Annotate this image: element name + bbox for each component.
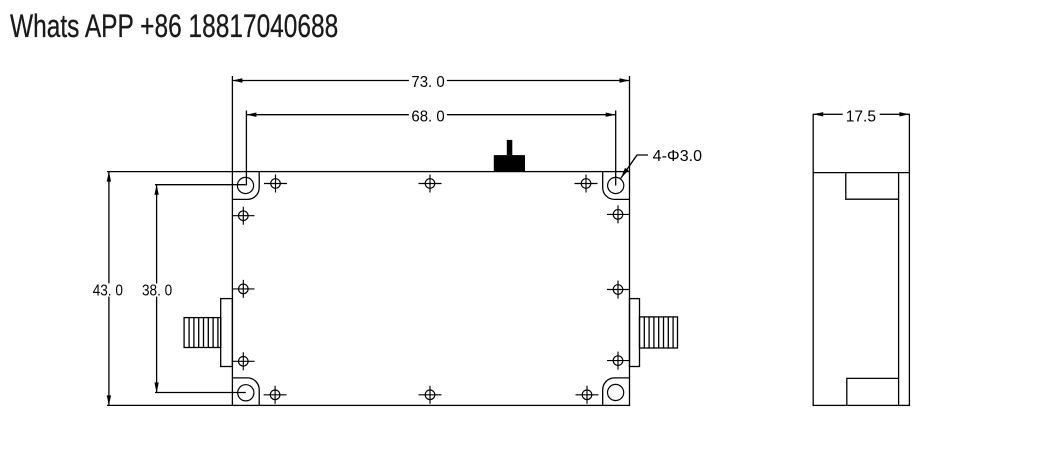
dim 43.0 arrows [107,172,111,406]
screw hole right col 1 [607,205,630,223]
screw hole bottom right [576,386,599,404]
SMA connector right barrel [640,317,678,348]
screw hole right col 3 [607,352,630,370]
screw hole left col 1 [232,207,254,225]
text 38.0 [141,283,175,300]
SMA connector right flange [630,299,640,367]
corner lug bottom-left [232,378,259,406]
screw hole top row [264,175,287,193]
svg-text:43. 0: 43. 0 [93,283,123,300]
dim 17.5 arrows [813,112,909,116]
screw hole top middle [419,175,442,193]
svg-text:17.5: 17.5 [846,108,876,125]
svg-text:38. 0: 38. 0 [142,283,172,300]
side view inner wall [898,173,900,406]
SMA connector left threads [189,318,218,348]
text 68.0 [409,108,447,125]
corner hole top-right [608,177,624,193]
dim 68.0 line [246,111,615,186]
side view bottom notch [847,378,899,405]
feedthrough pin top (filled) [494,140,525,172]
screw hole top right [575,175,598,193]
side view top notch [846,173,899,200]
dimension texts with white backing [91,74,880,300]
text 4-phi3.0 [653,148,702,165]
leader 4-phi3.0 [621,155,648,178]
dim 73.0 arrows [232,78,629,82]
dim 43.0 line [107,172,232,406]
dim 38.0 line [155,185,246,393]
corner lug top-right [603,172,630,200]
side view outline [813,114,909,405]
dim 38.0 arrows [154,185,158,393]
SMA connector left barrel [184,318,221,348]
SMA connector right threads [644,317,673,348]
header contact text [10,8,338,45]
corner hole bottom-right [608,384,624,400]
side view lid line [813,172,909,174]
corner lug bottom-right [603,378,630,406]
screw hole bottom middle [419,386,442,404]
text 17.5 [843,108,880,125]
screw hole left col 3 [232,352,254,370]
dim 73.0 line [232,76,629,172]
screw hole bottom left [264,386,287,404]
corner hole top-left [237,177,253,193]
corner lug top-left [232,172,259,200]
svg-text:4-Φ3.0: 4-Φ3.0 [653,148,702,165]
dim 68.0 arrows [246,113,615,117]
text 73.0 [409,74,447,91]
text 43.0 [91,283,125,300]
SMA connector left flange [221,299,233,367]
svg-text:73. 0: 73. 0 [411,74,444,91]
screw hole right col 2 [607,281,630,299]
screw hole left col 2 [232,280,254,298]
svg-text:68. 0: 68. 0 [411,108,444,125]
corner hole bottom-left [238,385,254,401]
front view body outline [232,172,629,406]
